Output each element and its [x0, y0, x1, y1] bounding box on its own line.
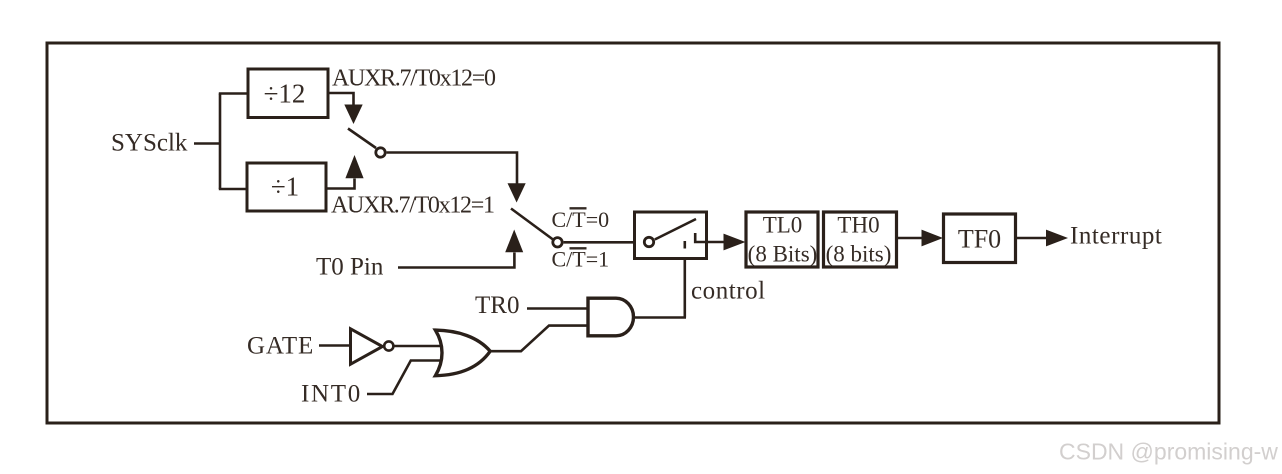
svg-text:AUXR.7/T0x12=0: AUXR.7/T0x12=0	[332, 65, 496, 91]
arrowhead up from T0 Pin into switch S2	[505, 230, 523, 253]
label C/T=0 with overline on T	[552, 207, 610, 232]
wire TR0 to AND gate	[527, 307, 588, 310]
flag box TF0	[944, 214, 1016, 263]
wire INT0 to OR gate lower input	[367, 361, 447, 395]
svg-text:÷1: ÷1	[271, 172, 299, 202]
wire S2 pole to control gate box	[564, 241, 635, 244]
svg-text:control: control	[691, 278, 766, 305]
svg-text:AUXR.7/T0x12=1: AUXR.7/T0x12=1	[331, 192, 494, 218]
wire OR output to AND lower input	[490, 326, 588, 352]
control switch blade	[655, 219, 696, 240]
wire S1 pole to switch S2	[387, 153, 517, 184]
arrowhead down into switch S2	[508, 183, 526, 202]
svg-text:GATE: GATE	[247, 333, 314, 360]
wire T0 Pin to switch S2	[398, 253, 514, 268]
wire NOT bubble to OR gate	[395, 345, 441, 348]
wire DIV12 output	[328, 93, 354, 105]
switch S2 pole circle	[553, 238, 562, 247]
arrowhead up from DIV1 to switch S1	[345, 155, 363, 178]
switch S2 blade	[511, 209, 553, 240]
wire branch to DIV12 input	[219, 92, 248, 95]
svg-text:SYSclk: SYSclk	[111, 130, 188, 157]
svg-text:C/T=0: C/T=0	[552, 207, 610, 232]
svg-text:INT0: INT0	[301, 380, 362, 407]
wire branch to DIV1 input	[219, 188, 247, 191]
wire SYSclk to branch node	[194, 142, 220, 145]
svg-text:(8 Bits): (8 Bits)	[748, 242, 818, 267]
svg-text:T0 Pin: T0 Pin	[316, 254, 384, 281]
divider box DIV12	[248, 69, 328, 118]
svg-text:TH0: TH0	[837, 213, 879, 238]
wire TF0 to interrupt	[1016, 237, 1048, 240]
wire GATE to NOT gate	[319, 344, 352, 347]
register TL0 box	[746, 212, 818, 267]
svg-text:÷12: ÷12	[264, 78, 306, 108]
arrowhead interrupt	[1046, 230, 1068, 247]
wire branch vertical	[219, 94, 222, 190]
register TH0 box	[824, 212, 897, 267]
control gate box	[635, 212, 707, 259]
control switch fixed contact	[695, 233, 706, 242]
arrowhead down from DIV12 to switch S1	[344, 105, 362, 125]
or gate U2	[435, 330, 490, 376]
wire DIV1 output	[326, 179, 355, 189]
divider box DIV1	[247, 163, 326, 211]
svg-text:TF0: TF0	[958, 225, 1001, 254]
wire control box output	[707, 241, 725, 244]
not gate U1 bubble	[384, 341, 393, 350]
svg-text:TR0: TR0	[475, 292, 519, 319]
arrowhead into TF0	[922, 230, 944, 247]
not gate U1 triangle	[351, 329, 383, 364]
control switch break dash	[683, 241, 686, 249]
switch S1 blade	[348, 129, 376, 149]
wire TH0 to TF0	[897, 237, 923, 240]
svg-text:CSDN @promising-w: CSDN @promising-w	[1059, 439, 1278, 465]
wire control box down to AND output	[683, 259, 686, 318]
label C/T=1 with overline on T	[552, 247, 610, 272]
svg-text:TL0: TL0	[763, 213, 803, 238]
svg-text:C/T=1: C/T=1	[552, 247, 610, 272]
control switch pole circle	[644, 237, 653, 246]
and gate U3	[588, 298, 633, 336]
svg-text:Interrupt: Interrupt	[1070, 223, 1162, 250]
wire AND output to control line	[634, 316, 687, 319]
arrowhead into TL0	[724, 234, 746, 251]
svg-text:(8 bits): (8 bits)	[826, 242, 892, 267]
switch S1 pole circle	[376, 148, 385, 157]
